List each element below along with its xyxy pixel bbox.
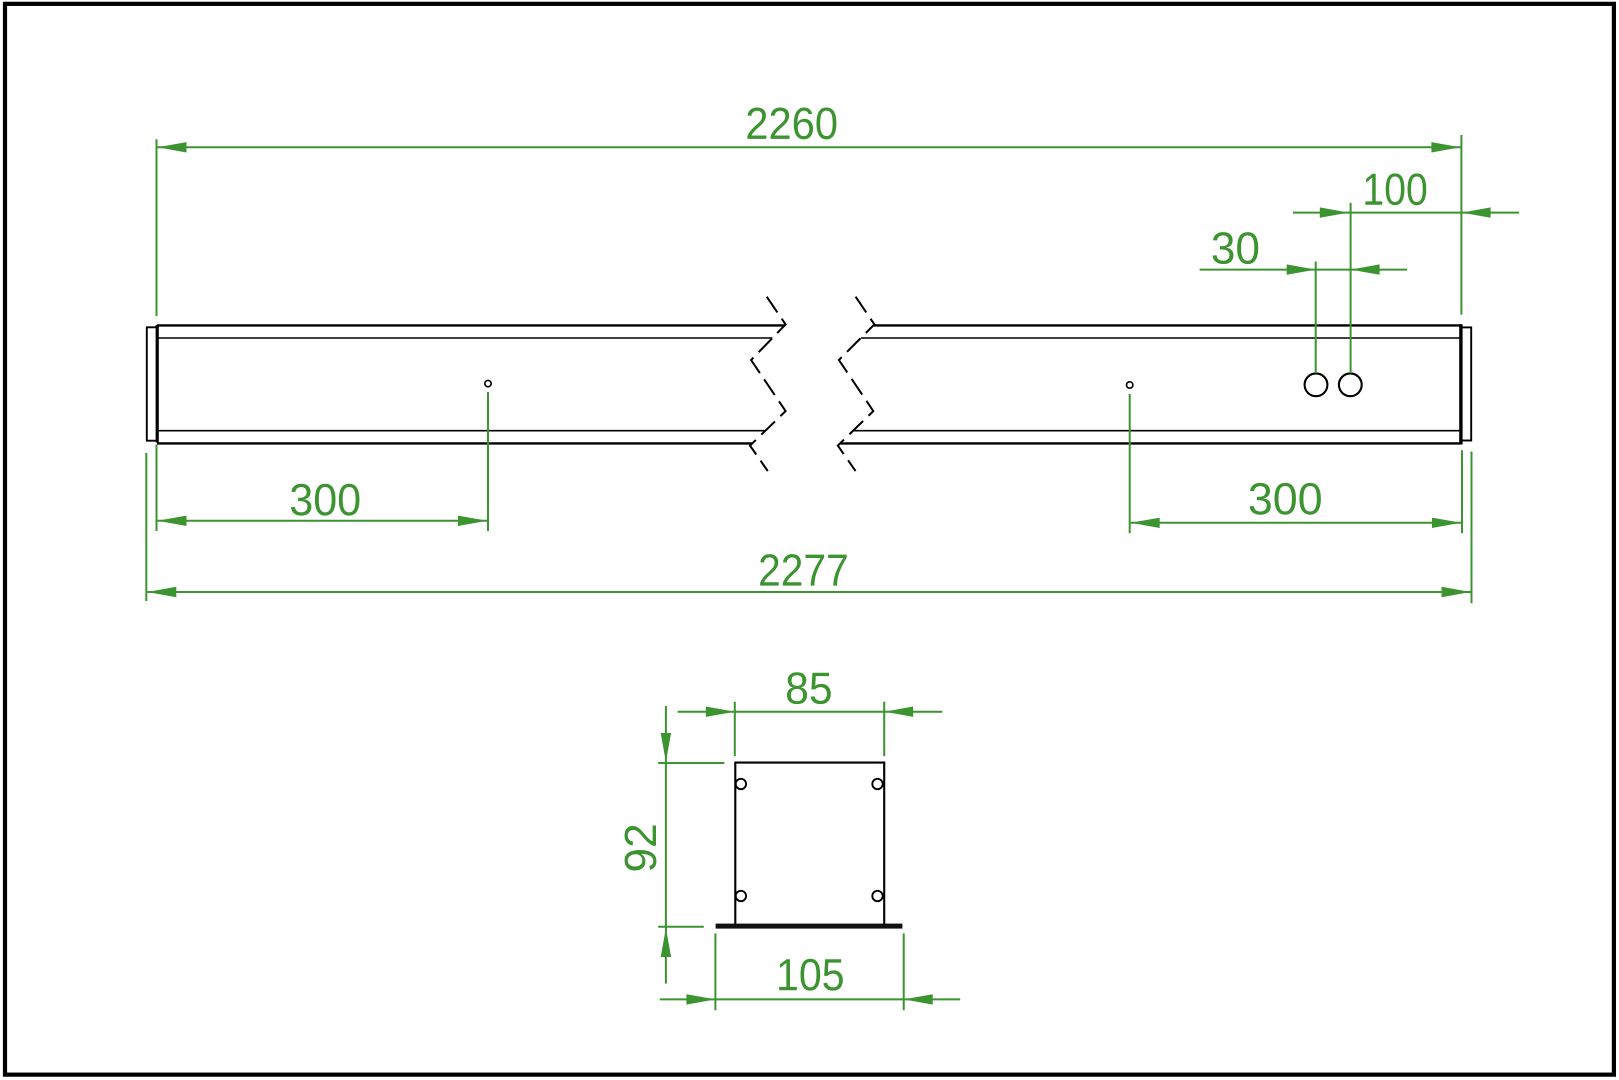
dim 85 extension left (734, 702, 736, 757)
dim 2260 line (158, 146, 1461, 148)
beam right end cap (1461, 327, 1471, 440)
arrow 300 right dim, left (1131, 518, 1160, 528)
beam bottom outer line (right segment) (840, 442, 1460, 444)
dim 300 left: extension at small hole (487, 392, 489, 531)
dim text 2277 (760, 554, 847, 585)
dim 85 extension right (883, 702, 885, 757)
section base plate (716, 924, 903, 929)
dim 92 extension bottom (658, 926, 704, 928)
arrow 2277 left (147, 587, 176, 597)
beam top inner line (right segment) (861, 337, 1460, 339)
section bolt hole top-right (872, 779, 882, 789)
arrow 2260 left (158, 142, 187, 152)
beam bottom outer line (left segment) (157, 442, 752, 444)
arrow 2277 right (1442, 587, 1471, 597)
section square right side (883, 763, 885, 924)
dim 100 extension hole2 (1350, 203, 1352, 373)
big hole 1 (1305, 373, 1328, 396)
dim text 85 (787, 672, 831, 704)
dim text 105 (779, 959, 843, 991)
arrow 100 left (points right) (1320, 207, 1349, 217)
small hole left (485, 380, 491, 386)
section square left side (734, 763, 736, 924)
dim 30 extension hole1 (1315, 262, 1317, 374)
beam right edge (thick) (1459, 324, 1462, 444)
section square top side (734, 762, 885, 764)
beam left edge (thick) (156, 325, 159, 443)
beam left end cap (147, 327, 157, 440)
dim 300 left line (158, 520, 488, 522)
dim text 92 (rotated) (625, 826, 657, 871)
arrow 2260 right (1431, 142, 1460, 152)
arrow 300 left dim, right (458, 516, 487, 526)
arrow 92 top (points down) (661, 733, 671, 762)
dim 105 line (660, 998, 961, 1000)
dim text 30 (1213, 232, 1259, 264)
dim text 300 right (1250, 483, 1321, 515)
dim text 100 (1365, 173, 1426, 205)
beam top outer line (right segment) (873, 324, 1461, 326)
dim 300 right line (1131, 522, 1461, 524)
arrow 105 right (points left) (904, 994, 933, 1004)
dim 300 right: extension at small hole (1129, 394, 1131, 533)
dim 105 extension left (714, 933, 716, 1010)
big hole 2 (1339, 373, 1362, 396)
arrow 30 left (points right) (1287, 264, 1316, 274)
beam bottom inner line (right segment) (853, 430, 1460, 432)
break line right (zigzag) (838, 297, 875, 471)
dim 30 line (1200, 269, 1407, 271)
dim 92 line (665, 706, 667, 984)
dim 2260 extension left (156, 139, 158, 316)
dim 2277 extension right (1471, 452, 1473, 604)
beam top inner line (left segment) (158, 337, 772, 339)
dim 2260 / 100 extension right (1460, 135, 1462, 315)
beam top outer line (left segment) (157, 324, 785, 326)
dim 85 line (678, 711, 943, 713)
dim 92 extension top (658, 762, 724, 764)
arrow 92 bottom (points up) (661, 928, 671, 957)
section bolt hole top-left (736, 779, 746, 789)
beam bottom inner line (left segment) (158, 430, 765, 432)
dim text 2260 (747, 107, 836, 139)
dim text 300 left (291, 484, 360, 516)
arrow 85 right (points left) (884, 707, 913, 717)
arrow 30 right (points left) (1351, 264, 1380, 274)
small hole right (1127, 382, 1133, 388)
section bolt hole bottom-right (872, 891, 882, 901)
dim 2277 extension left (145, 453, 147, 601)
break line left (zigzag) (750, 297, 786, 471)
arrow 300 left dim, left (158, 516, 187, 526)
dim 105 extension right (903, 933, 905, 1010)
dim 300 right: extension at beam body end (1461, 450, 1463, 533)
dim 2277 line (147, 591, 1470, 593)
section bolt hole bottom-left (736, 891, 746, 901)
dim 100 line (1293, 212, 1519, 214)
arrow 85 left (points right) (706, 707, 735, 717)
arrow 100 right (points left) (1462, 207, 1491, 217)
arrow 300 right dim, right (1432, 518, 1461, 528)
arrow 105 left (points right) (686, 994, 715, 1004)
dim 300 left: extension at beam left (156, 445, 158, 532)
